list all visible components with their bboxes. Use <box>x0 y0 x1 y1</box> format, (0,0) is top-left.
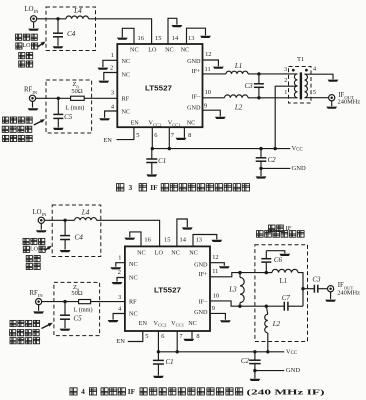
svg-text:50Ω: 50Ω <box>71 290 82 297</box>
svg-text:C5: C5 <box>73 315 82 323</box>
T1 pin number 2 (fig3) <box>284 77 287 84</box>
svg-text:C3: C3 <box>312 275 321 283</box>
pin number 1 (fig3) <box>111 52 114 59</box>
svg-text:NC: NC <box>130 46 139 53</box>
node C2 rail (fig4) <box>253 350 256 353</box>
T1 core (fig3) <box>300 72 302 99</box>
node T1 tap rail (fig3) <box>274 147 277 150</box>
dashed box RF matching (fig4) <box>54 282 100 335</box>
node below C2 (fig4) <box>253 369 256 372</box>
svg-text:NC: NC <box>187 120 196 127</box>
wire pin10 jog (fig4) <box>210 301 240 306</box>
svg-text:L (mm): L (mm) <box>65 105 84 112</box>
IC U1 LT5527 body (fig3) <box>117 44 202 127</box>
ground below C1 (fig4) <box>153 376 164 378</box>
svg-text:T1: T1 <box>297 56 304 63</box>
inductor L2 (fig3) <box>225 95 249 98</box>
capacitor C2 (fig3) <box>256 149 267 169</box>
svg-text:6: 6 <box>154 132 157 139</box>
label L2 (fig4) <box>272 320 281 328</box>
label L mm (fig4) <box>74 307 93 314</box>
pin labels right col (fig4) <box>194 262 208 317</box>
svg-text:13: 13 <box>196 237 202 244</box>
pin number 14 (fig3) <box>172 35 179 42</box>
svg-text:11: 11 <box>212 268 218 275</box>
pin 13 lead and ground (fig3) <box>187 28 206 44</box>
node pin6 rail (fig3) <box>151 147 154 150</box>
svg-text:240MHz: 240MHz <box>337 289 360 296</box>
pin 6 lead (fig4) <box>157 331 159 352</box>
ground pin9 (fig3) <box>215 117 226 119</box>
ground pin2 (fig4) <box>112 282 123 284</box>
pin number 13 (fig4) <box>196 237 202 244</box>
pin 2 lead and ground (fig3) <box>104 73 118 81</box>
pin 6 lead (fig3) <box>151 127 153 148</box>
pin number 3 (fig4) <box>118 294 121 301</box>
ground pin1 (fig3) <box>98 68 109 70</box>
inductor L1 (fig3) <box>226 71 248 74</box>
pin 5 lead EN (fig4) <box>128 331 143 342</box>
wire GND stub (fig4) <box>255 371 284 379</box>
pin number 3 (fig3) <box>111 90 114 97</box>
svg-text:2: 2 <box>118 269 121 276</box>
label C5 (fig3) <box>64 113 73 121</box>
wire to C7 (fig4) <box>240 305 266 307</box>
label L1 (fig3) <box>234 62 242 70</box>
pin number 12 (fig4) <box>212 254 218 261</box>
svg-text:LO: LO <box>30 247 39 253</box>
pin labels top row (fig3) <box>130 46 189 53</box>
ground below C4 (fig4) <box>60 250 71 252</box>
T1 secondary winding (fig3) <box>305 74 308 98</box>
node IF+ (fig3) <box>257 72 260 75</box>
annotation low-freq LO matching (fig4) <box>23 238 45 269</box>
svg-text:LO: LO <box>23 43 32 49</box>
svg-text:LO: LO <box>148 46 157 53</box>
svg-text:C4: C4 <box>75 234 84 242</box>
svg-text:GND: GND <box>286 367 301 374</box>
balun label line2 (fig4) <box>257 231 305 238</box>
capacitor C6 (fig4) <box>261 251 271 273</box>
node L3 bottom (fig4) <box>238 305 241 308</box>
pin number 6 (fig3) <box>154 132 157 139</box>
ground below C2 (fig3) <box>256 176 267 178</box>
pin number 16 (fig3) <box>138 35 144 42</box>
pin labels right col (fig3) <box>187 58 201 112</box>
label C4 (fig3) <box>67 30 76 38</box>
node IF- (fig3) <box>257 96 260 99</box>
ground pin8 (fig4) <box>183 339 194 341</box>
pin 14 lead and ground (fig3) <box>168 18 177 44</box>
pin number 15 (fig4) <box>164 237 170 244</box>
pin number 5 (fig4) <box>145 333 148 340</box>
node L2 top (fig4) <box>265 305 268 308</box>
svg-text:L2: L2 <box>234 104 243 112</box>
label Z0 (fig4) <box>73 284 80 292</box>
label C3 (fig4) <box>312 275 321 283</box>
resistor Z0 50ohm (fig4) <box>79 300 91 304</box>
svg-text:C7: C7 <box>282 294 291 302</box>
label Vcc (fig3) <box>292 145 303 152</box>
pin number 6 (fig4) <box>161 333 164 340</box>
capacitor C4 (fig3) <box>53 19 63 46</box>
pin number 2 (fig4) <box>118 269 121 276</box>
pin number 2 (fig3) <box>110 65 113 72</box>
ground at IF_OUT (fig4) <box>325 300 336 302</box>
pin number 4 (fig3) <box>111 103 115 110</box>
pin labels left col (fig4) <box>129 261 138 318</box>
svg-text:L1: L1 <box>280 278 288 285</box>
svg-text:EN: EN <box>139 320 148 327</box>
pin number 8 (fig3) <box>188 132 191 139</box>
svg-text:NC: NC <box>129 261 138 268</box>
wire pin10 to L2 (fig3) <box>203 97 225 99</box>
connector LO_IN (fig4) <box>38 217 44 229</box>
ground pin9 (fig4) <box>220 320 231 322</box>
svg-text:NC: NC <box>122 58 131 65</box>
svg-text:16: 16 <box>144 237 150 244</box>
svg-text:NC: NC <box>189 249 198 256</box>
node C6 (fig4) <box>265 271 268 274</box>
label C6 (fig4) <box>274 256 283 264</box>
label L4 (fig3) <box>73 7 82 15</box>
svg-text:IF−: IF− <box>192 94 202 101</box>
label IF_OUT (fig3) <box>338 92 354 100</box>
label C7 (fig4) <box>282 294 291 302</box>
svg-text:1: 1 <box>111 52 114 59</box>
dashed box balun (fig4) <box>255 245 308 342</box>
pin number 7 (fig4) <box>179 333 183 340</box>
pin labels left col (fig3) <box>122 58 131 115</box>
label C3 (fig3) <box>245 82 254 90</box>
svg-text:2: 2 <box>110 65 113 72</box>
svg-text:EN: EN <box>116 338 125 345</box>
pin 7 lead (fig3) <box>168 127 170 148</box>
wire Z0 to pin3 RF (fig3) <box>84 97 117 99</box>
svg-text:LO: LO <box>155 249 164 256</box>
svg-text:5: 5 <box>313 89 316 96</box>
dashed box LO matching (fig4) <box>52 205 101 257</box>
ground pin4 (fig3) <box>99 118 110 120</box>
label L2 (fig3) <box>234 104 243 112</box>
label LT5527 (fig4) <box>154 285 181 294</box>
wire C6 to ground (fig4) <box>266 251 285 254</box>
ground T1 pin4 (fig3) <box>328 80 339 82</box>
wire pin11 jog (fig4) <box>210 273 240 277</box>
node RF match (fig3) <box>57 97 60 100</box>
pin number 4 (fig4) <box>118 305 122 312</box>
pin 1 lead and ground (fig3) <box>103 60 117 67</box>
node pin7 rail (fig4) <box>176 350 179 353</box>
capacitor C3 (fig4) <box>303 285 328 293</box>
ground pin12 (fig4) <box>219 266 230 268</box>
label C2 (fig3) <box>268 156 277 164</box>
svg-text:2: 2 <box>284 77 287 84</box>
svg-text:50Ω: 50Ω <box>71 88 82 95</box>
svg-text:14: 14 <box>172 35 179 42</box>
arrow to RF box (fig3) <box>34 119 45 125</box>
svg-text:C1: C1 <box>158 157 166 165</box>
label L mm (fig3) <box>65 105 84 112</box>
pin number 11 (fig4) <box>212 268 218 275</box>
wire RF_IN to Z0 (fig4) <box>42 301 79 303</box>
svg-text:15: 15 <box>155 35 161 42</box>
dashed box RF matching (fig3) <box>46 80 92 133</box>
svg-text:5: 5 <box>136 132 139 139</box>
svg-text:12: 12 <box>212 254 218 261</box>
svg-text:LT5527: LT5527 <box>145 83 172 92</box>
connector IF_OUT (fig4) <box>328 286 334 300</box>
wire to C6 node (fig4) <box>240 272 266 274</box>
T1 pin number 4 (fig3) <box>313 66 316 73</box>
wire pin11 to L1 (fig3) <box>203 73 227 75</box>
label GND (fig4) <box>286 367 301 374</box>
ground below C5 (fig4) <box>60 329 71 331</box>
svg-text:L4: L4 <box>81 208 90 216</box>
label LT5527 (fig3) <box>145 83 172 92</box>
connector RF_IN (fig3) <box>29 95 35 107</box>
pin number 5 (fig3) <box>136 132 139 139</box>
svg-text:NC: NC <box>122 72 131 79</box>
pin 8 lead and ground (fig3) <box>183 127 185 137</box>
wire L1 to C3 node (fig4) <box>298 273 303 289</box>
T1 pin number 5 (fig3) <box>313 89 316 96</box>
pin 8 lead and ground (fig4) <box>191 331 193 339</box>
inductor L2 (fig4) <box>265 306 268 352</box>
inductor L3 (fig4) <box>240 273 244 307</box>
ground at RF_IN (fig4) <box>33 311 44 313</box>
ground below C2 (fig4) <box>250 379 261 381</box>
T1 pin number 3 (fig3) <box>284 66 287 73</box>
label L4 (fig4) <box>81 208 90 216</box>
svg-text:RF: RF <box>129 299 137 306</box>
pin 2 lead and ground (fig4) <box>117 278 125 282</box>
node LO match (fig4) <box>63 219 66 222</box>
svg-text:L3: L3 <box>228 285 237 293</box>
svg-text:C2: C2 <box>241 357 250 365</box>
svg-text:NC: NC <box>129 275 138 282</box>
connector LO_IN (fig3) <box>30 16 36 28</box>
wire L4 to pin15 (fig4) <box>97 220 160 246</box>
svg-text:C3: C3 <box>245 82 254 90</box>
label RF_IN (fig4) <box>30 290 44 298</box>
pin number 15 (fig3) <box>155 35 161 42</box>
pin 1 lead and ground (fig4) <box>116 263 125 267</box>
ground below C5 (fig3) <box>53 128 64 130</box>
ground pin16 (fig3) <box>117 38 128 40</box>
svg-text:1: 1 <box>118 254 121 261</box>
node L3 top (fig4) <box>238 271 241 274</box>
svg-text:NC: NC <box>165 46 174 53</box>
svg-text:IF−: IF− <box>199 299 209 306</box>
node C3 (fig4) <box>301 287 304 290</box>
pin 12 lead and ground (fig4) <box>210 263 224 266</box>
ground at LO_IN (fig3) <box>28 29 39 31</box>
dashed box T1 (fig3) <box>289 67 312 104</box>
phase dot T1 primary (fig3) <box>292 69 295 72</box>
T1 pin number 1 (fig3) <box>284 89 287 96</box>
capacitor C4 (fig4) <box>60 220 70 249</box>
pin 16 lead and ground (fig4) <box>130 232 141 247</box>
pin number 10 (fig4) <box>213 293 219 300</box>
capacitor C5 (fig3) <box>53 98 63 127</box>
ground pin1 (fig4) <box>110 267 121 269</box>
label T1 (fig3) <box>297 56 304 63</box>
svg-text:GND: GND <box>292 165 307 172</box>
ground pin2 (fig3) <box>98 81 109 83</box>
svg-text:L2: L2 <box>272 320 281 328</box>
label C2 (fig4) <box>241 357 250 365</box>
resistor Z0 50ohm (fig3) <box>71 96 85 100</box>
svg-text:16: 16 <box>138 35 144 42</box>
pin 4 lead and ground (fig4) <box>113 314 125 320</box>
pin 7 lead (fig4) <box>176 331 178 352</box>
node below C2 (fig3) <box>259 167 262 170</box>
ground pin14 (fig4) <box>182 227 193 229</box>
inductor L4 (fig4) <box>75 218 97 221</box>
caption figure 4 <box>70 387 325 396</box>
pin 16 lead and ground (fig3) <box>122 28 134 44</box>
pin 12 lead and ground (fig3) <box>203 60 219 66</box>
svg-text:IF+: IF+ <box>192 68 202 75</box>
svg-text:NC: NC <box>171 249 180 256</box>
arrow to LO box (fig3) <box>38 42 46 48</box>
label RF_IN (fig3) <box>24 87 38 95</box>
svg-text:6: 6 <box>161 333 164 340</box>
balun label line1 (fig4) <box>269 225 292 232</box>
ground below C1 (fig3) <box>146 174 157 176</box>
annotation RF matching (fig3) <box>2 117 32 142</box>
svg-text:IF: IF <box>128 387 136 396</box>
svg-text:10: 10 <box>213 293 219 300</box>
ground pin13 (fig3) <box>200 36 211 38</box>
label IF_OUT (fig4) <box>338 282 354 290</box>
svg-text:3: 3 <box>118 294 121 301</box>
pin number 13 (fig3) <box>188 35 194 42</box>
svg-text:3: 3 <box>129 183 133 192</box>
pin 14 lead and ground (fig4) <box>177 219 187 246</box>
label 240MHz (fig3) <box>338 99 361 106</box>
svg-text:L4: L4 <box>73 7 82 15</box>
pin number 7 (fig3) <box>171 132 175 139</box>
Vcc rail (fig4) <box>158 351 284 353</box>
pin 13 lead and ground (fig4) <box>193 235 217 247</box>
arrow to RF box (fig4) <box>42 323 53 329</box>
wire GND stub (fig3) <box>261 168 290 176</box>
wire RF_IN to Z0 (fig3) <box>36 97 71 99</box>
svg-text:GND: GND <box>187 105 201 112</box>
inductor L1 (fig4) <box>266 269 298 272</box>
svg-text:9: 9 <box>212 305 215 312</box>
svg-text:C1: C1 <box>166 358 174 366</box>
capacitor C1 (fig3) <box>146 149 157 174</box>
pin number 10 (fig3) <box>205 89 211 96</box>
svg-text:EN: EN <box>103 137 112 144</box>
ground C6 (fig4) <box>279 254 290 256</box>
IC U2 LT5527 body (fig4) <box>125 246 210 331</box>
wire T1 pin5 to IF_OUT (fig3) <box>305 97 329 99</box>
svg-text:8: 8 <box>188 132 191 139</box>
pin labels top row (fig4) <box>137 249 198 256</box>
ground pin8 (fig3) <box>176 138 187 140</box>
dashed box LO matching (fig3) <box>46 7 96 51</box>
label 50ohm (fig4) <box>71 290 82 297</box>
label EN terminal (fig4) <box>116 338 125 345</box>
pin number 1 (fig4) <box>118 254 121 261</box>
svg-text:4: 4 <box>81 387 85 396</box>
svg-text:8: 8 <box>196 333 199 340</box>
T1 primary winding (fig3) <box>294 74 297 98</box>
label 240MHz (fig4) <box>337 289 360 296</box>
capacitor C7 (fig4) <box>266 302 303 311</box>
node C2 rail (fig3) <box>259 147 262 150</box>
svg-text:L1: L1 <box>234 62 242 70</box>
label Z0 (fig3) <box>73 81 80 89</box>
svg-text:5: 5 <box>145 333 148 340</box>
label GND (fig3) <box>292 165 307 172</box>
capacitor C2 (fig4) <box>249 352 261 371</box>
svg-text:NC: NC <box>122 109 131 116</box>
wire T1 pin4 to ground (fig3) <box>305 74 334 79</box>
label C1 (fig3) <box>158 157 166 165</box>
svg-text:C2: C2 <box>268 156 277 164</box>
annotation low-freq LO matching (fig3) <box>16 34 38 67</box>
svg-text:3: 3 <box>284 66 287 73</box>
ground at RF_IN (fig3) <box>28 108 39 110</box>
svg-text:13: 13 <box>188 35 194 42</box>
label L3 (fig4) <box>228 285 237 293</box>
ground at IF_OUT (fig3) <box>326 107 337 109</box>
pin number 12 (fig3) <box>205 51 211 58</box>
label C1 (fig4) <box>166 358 174 366</box>
wire Z0 to pin3 RF (fig4) <box>91 301 125 303</box>
label C5 (fig4) <box>73 315 82 323</box>
Vcc rail (fig3) <box>152 148 290 150</box>
svg-text:L (mm): L (mm) <box>74 307 93 314</box>
node L2 rail (fig4) <box>266 350 269 353</box>
svg-text:IF: IF <box>150 183 158 192</box>
ground pin4 (fig4) <box>108 320 119 322</box>
svg-text:C6: C6 <box>274 256 283 264</box>
pin 9 lead and ground (fig4) <box>210 313 225 319</box>
svg-text:GND: GND <box>187 58 201 65</box>
capacitor C5 (fig4) <box>60 302 70 329</box>
svg-text:NC: NC <box>129 310 138 317</box>
pin labels bottom row (fig4) <box>139 320 197 327</box>
label 50ohm (fig3) <box>71 88 82 95</box>
ground pin12 (fig3) <box>213 67 224 69</box>
label Vcc (fig4) <box>286 348 297 355</box>
svg-text:14: 14 <box>180 237 187 244</box>
annotation RF matching (fig4) <box>10 320 40 343</box>
svg-text:GND: GND <box>194 309 208 316</box>
label L1 (fig4) <box>280 278 288 285</box>
pin 5 lead EN (fig3) <box>117 127 134 139</box>
label EN terminal (fig3) <box>103 137 112 144</box>
pin number 11 (fig3) <box>205 66 211 73</box>
node RF match (fig4) <box>63 300 66 303</box>
inductor L4 (fig3) <box>66 16 89 19</box>
svg-text:GND: GND <box>194 262 208 269</box>
label C4 (fig4) <box>75 234 84 242</box>
ground at LO_IN (fig4) <box>36 230 47 232</box>
svg-text:C4: C4 <box>67 30 76 38</box>
svg-text:10: 10 <box>205 89 211 96</box>
svg-text:3: 3 <box>111 90 114 97</box>
ground pin16 (fig4) <box>124 238 135 240</box>
svg-text:9: 9 <box>204 102 207 109</box>
svg-text:12: 12 <box>205 51 211 58</box>
